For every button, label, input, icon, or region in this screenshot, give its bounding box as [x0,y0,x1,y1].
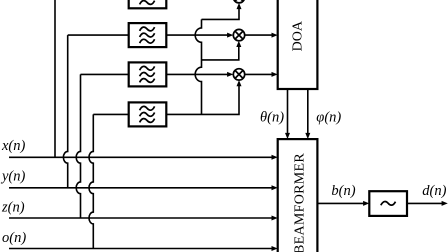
arrowhead phi(n) into BEAMFORMER top [305,133,310,139]
wire riser from y(n) to filter F2 (hops over x(n) line) [63,35,67,188]
wire theta(n) output from DOA to BEAMFORMER [287,89,289,134]
arrowhead into mixer M3 bottom [237,80,242,86]
wire phi(n) output from DOA to BEAMFORMER [307,89,309,134]
svg-text:φ(n): φ(n) [316,109,341,125]
svg-text:DOA: DOA [291,20,306,51]
svg-text:BEAMFORMER: BEAMFORMER [292,153,307,252]
wire riser from x(n) to filter F1 [54,0,56,157]
arrowhead mixer M3 output into DOA [272,72,278,77]
wire filter F2 output to mixer M2 [166,34,227,36]
DOA block [278,0,318,89]
wire filter F4 input [93,113,128,115]
svg-text:θ(n): θ(n) [260,109,284,125]
mixer M1 (cut off at top) [233,0,244,3]
arrowhead into mixer M2 bottom [236,41,241,47]
wire riser from o(n) to filter F4 (hops over x(n),y(n),z(n) lines) [89,114,93,248]
arrowhead into mixer M2 left [227,33,233,38]
filter F4 [129,102,167,126]
wire output d(n) [407,202,443,204]
arrowhead into mixer M3 left [227,72,233,77]
arrowhead mixer M2 output into DOA [272,33,278,38]
mixer M2 [233,29,244,40]
arrowhead theta(n) into BEAMFORMER top [285,133,290,139]
filter F2 [129,23,167,47]
mixer M3 [233,69,244,80]
arrowhead o(n) into BEAMFORMER left [272,246,278,251]
wire riser from z(n) to filter F3 (hops over x(n),y(n) lines) [76,74,80,218]
arrowhead z(n) into BEAMFORMER left [272,216,278,221]
filter F3 [129,62,167,86]
svg-text:b(n): b(n) [331,183,355,199]
svg-text:x(n): x(n) [1,138,26,154]
wire filter F4 output line to junction and corner up into mixer M3 [166,86,239,115]
arrowhead x(n) into BEAMFORMER left [272,155,278,160]
BEAMFORMER block (cut off at bottom) [278,139,318,252]
wire mixer M3 output to DOA [245,73,273,75]
wire filter F3 input [81,73,129,75]
wire o(n) input line [9,248,272,250]
svg-text:o(n): o(n) [2,230,26,246]
wire z(n) input line [9,217,272,219]
wire x(n) input line [9,156,272,158]
wire filter F2 input [68,34,129,36]
wire y(n) input line [9,187,272,189]
wire mixer M2 output to DOA [245,34,273,36]
wire middle branch to mixer M2 bottom [202,46,239,60]
arrowhead b(n) into postfilter [363,201,369,206]
wire top branch to mixer M1 bottom [202,8,240,19]
arrowhead output d(n) [442,201,448,206]
wire filter F3 output to mixer M3 [166,73,227,75]
postfilter block (tilde box) [369,191,407,216]
svg-text:z(n): z(n) [1,199,25,215]
wire beamformer output b(n) [317,202,364,204]
arrowhead into mixer M1 bottom [237,3,242,9]
filter F1 (cut off at top) [129,0,167,8]
svg-text:y(n): y(n) [0,169,26,185]
arrowhead y(n) into BEAMFORMER left [272,185,278,190]
svg-text:d(n): d(n) [422,183,446,199]
wire reference riser from F4 output up (hops over F3 and F2 output lines) [195,19,201,114]
